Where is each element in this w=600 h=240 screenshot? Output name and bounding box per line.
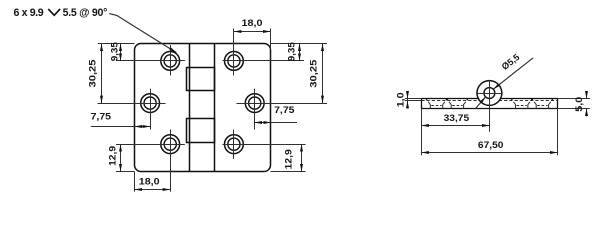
dimension 12,9 right	[284, 144, 302, 171]
countersunk hole MR with center lines	[237, 89, 328, 130]
svg-text:18,0: 18,0	[242, 18, 263, 28]
dimension 30,25 left	[87, 44, 101, 104]
side view strip bottom edge	[421, 108, 557, 110]
dimension 5,0	[558, 92, 590, 117]
dimension 18,0 top	[234, 18, 271, 32]
left edge extension down	[134, 172, 136, 192]
svg-text:18,0: 18,0	[139, 177, 160, 187]
extension line side left	[421, 109, 423, 156]
dimension 67,50	[421, 140, 557, 153]
countersunk hole BR with center lines	[223, 130, 306, 159]
hinge barrel right edge	[214, 44, 216, 172]
knuckle segment lower	[187, 119, 215, 143]
bottom edge extension right	[271, 171, 306, 173]
countersunk hole ML with center lines	[98, 89, 166, 130]
extension line side right	[557, 109, 559, 156]
svg-text:30,25: 30,25	[87, 60, 97, 88]
svg-text:7,75: 7,75	[274, 105, 294, 115]
knuckle segment upper	[187, 68, 215, 91]
svg-text:12,9: 12,9	[284, 149, 294, 169]
barrel center line horizontal	[476, 93, 503, 95]
svg-text:9,35: 9,35	[109, 42, 119, 61]
barrel center line vertical	[489, 80, 491, 132]
svg-text:5,0: 5,0	[574, 97, 584, 112]
side view strip left end	[421, 99, 423, 109]
countersunk hole TL with center lines	[116, 45, 185, 76]
svg-text:6 x 9.9: 6 x 9.9	[14, 7, 44, 19]
hinge pin hole circle	[484, 88, 495, 99]
diameter callout 5,5	[475, 52, 533, 109]
countersunk hole profile 3 (side view)	[511, 99, 533, 109]
countersink symbol	[48, 9, 60, 15]
dimension 7,75 left	[91, 112, 151, 127]
hidden line leaf underside	[421, 100, 557, 102]
dimension 1,0	[395, 91, 421, 108]
top edge extension left	[98, 43, 135, 45]
hinge barrel left edge	[189, 44, 191, 172]
svg-text:5.5 @ 90°: 5.5 @ 90°	[63, 7, 108, 19]
side view strip top edge	[421, 98, 557, 100]
right corner extension up	[270, 29, 272, 50]
barrel circle outer	[477, 81, 502, 106]
dimension 7,75 right	[255, 105, 297, 122]
svg-text:12,9: 12,9	[108, 146, 118, 166]
hinge plate outline (front view)	[135, 44, 271, 172]
countersunk hole profile 2 (side view)	[446, 99, 468, 109]
bottom edge extension left	[116, 171, 135, 173]
dimension 30,25 right	[308, 44, 322, 104]
dimension 12,9 left	[108, 144, 121, 171]
side view strip right end	[557, 99, 559, 109]
countersunk hole TR with center lines	[223, 29, 305, 76]
svg-text:7,75: 7,75	[91, 112, 111, 122]
dimension 33,75	[421, 113, 489, 125]
countersunk hole BL with center lines	[116, 130, 185, 192]
svg-text:1,0: 1,0	[395, 92, 405, 107]
svg-text:30,25: 30,25	[308, 60, 318, 88]
dimension 18,0 bottom	[135, 177, 171, 190]
countersunk hole profile 4 (side view)	[531, 99, 553, 109]
svg-text:67,50: 67,50	[478, 140, 504, 150]
dimension 9,35 left	[109, 42, 120, 61]
svg-text:33,75: 33,75	[444, 113, 470, 123]
svg-text:9,35: 9,35	[286, 42, 296, 61]
dimension 9,35 right	[286, 42, 299, 61]
callout text 6 x 9.9 csk 5.5 at 90	[14, 7, 108, 19]
countersunk hole profile 1 (side view)	[426, 99, 448, 109]
top edge extension right	[271, 43, 328, 45]
callout leader line	[109, 14, 176, 53]
